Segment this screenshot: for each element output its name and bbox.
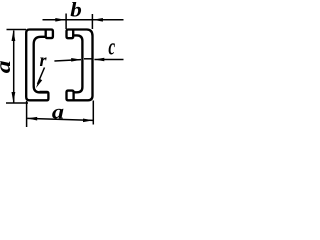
svg-text:r: r bbox=[40, 50, 48, 70]
svg-text:a: a bbox=[0, 60, 16, 73]
svg-text:b: b bbox=[70, 0, 82, 21]
svg-text:a: a bbox=[52, 100, 64, 123]
svg-text:c: c bbox=[108, 34, 115, 60]
